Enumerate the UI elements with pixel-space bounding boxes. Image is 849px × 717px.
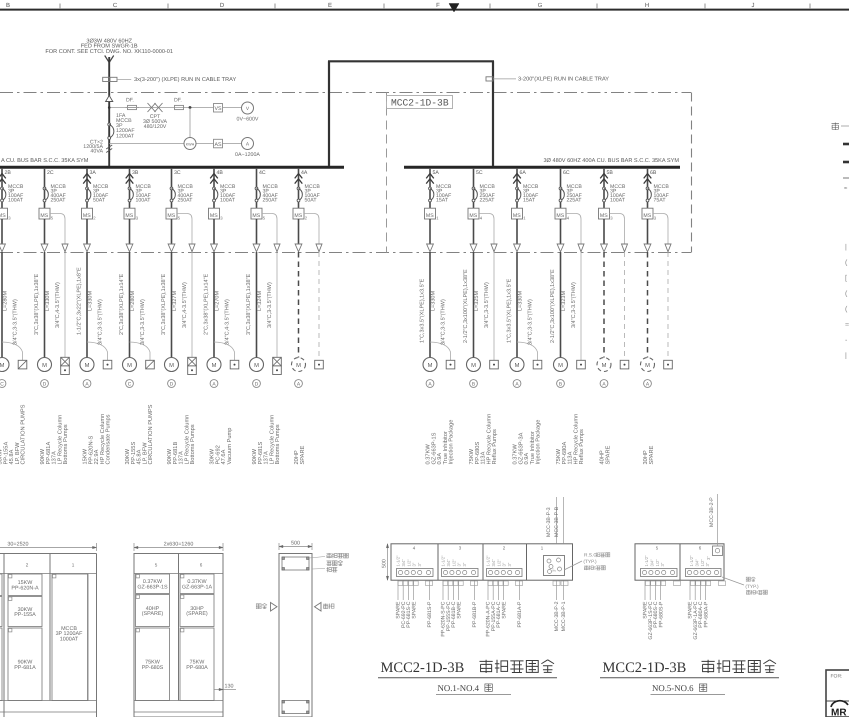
svg-text:M: M [602, 363, 607, 369]
svg-text:1-1/2": 1-1/2" [396, 555, 401, 567]
svg-text:C: C [0, 381, 4, 387]
svg-text:0V~600V: 0V~600V [237, 117, 259, 123]
svg-text:MCC-3B-P-1: MCC-3B-P-1 [561, 601, 567, 631]
svg-text:B: B [472, 381, 475, 387]
svg-text:L=327M: L=327M [172, 291, 178, 311]
svg-text:M: M [558, 363, 563, 369]
svg-text:6: 6 [200, 563, 203, 568]
svg-text:6B: 6B [650, 170, 657, 176]
svg-text:2: 2 [26, 563, 29, 568]
svg-text:PP-680A: PP-680A [186, 665, 208, 671]
svg-text:75AT: 75AT [654, 197, 667, 203]
svg-text:|: | [845, 352, 847, 360]
svg-text:3/4"C,3-3.5"(THW): 3/4"C,3-3.5"(THW) [441, 299, 447, 345]
svg-text:3"C,3x38"(XLPE),1x38"E: 3"C,3x38"(XLPE),1x38"E [246, 273, 252, 335]
svg-text:MCC-3B-P-B: MCC-3B-P-B [554, 506, 560, 537]
svg-text:CIRCULATION PUMPS: CIRCULATION PUMPS [148, 404, 154, 464]
svg-text:M: M [42, 363, 47, 369]
svg-text:1/2": 1/2" [700, 559, 705, 567]
svg-text:5: 5 [51, 215, 54, 220]
svg-text:2"C,3x38"(XLPE),1x14"E: 2"C,3x38"(XLPE),1x14"E [119, 273, 125, 335]
svg-text:2: 2 [305, 215, 308, 220]
svg-text:130: 130 [225, 684, 234, 690]
svg-text:50AT: 50AT [305, 197, 318, 203]
svg-text:M: M [428, 363, 433, 369]
svg-text:L=280M: L=280M [130, 291, 136, 311]
svg-text:1/2": 1/2" [406, 559, 411, 567]
svg-text:PP-681A-P: PP-681A-P [517, 601, 523, 627]
svg-text:15AT: 15AT [436, 197, 449, 203]
svg-text:SPARE: SPARE [649, 445, 655, 464]
svg-text:2-1/2"C,3x100"(XLPE),1x38"E: 2-1/2"C,3x100"(XLPE),1x38"E [463, 269, 469, 343]
svg-text:M: M [471, 363, 476, 369]
svg-text:3/4"C,3-3.5"(THW): 3/4"C,3-3.5"(THW) [13, 299, 19, 345]
svg-text:B: B [559, 381, 562, 387]
svg-text:3/4"C,3-3.5"(THW): 3/4"C,3-3.5"(THW) [571, 282, 577, 328]
svg-text:3A: 3A [90, 170, 97, 176]
svg-text:MCC2-1D-3B: MCC2-1D-3B [391, 97, 449, 108]
svg-text:100AT: 100AT [136, 197, 152, 203]
svg-text:MS: MS [0, 213, 6, 219]
svg-text:1-1/2": 1-1/2" [441, 555, 446, 567]
svg-text:3": 3" [552, 568, 557, 572]
svg-text:4: 4 [567, 215, 570, 220]
svg-text:M: M [645, 363, 650, 369]
svg-text:SPARE: SPARE [605, 445, 611, 464]
svg-text:3/4": 3/4" [446, 559, 451, 567]
svg-text:(SPARE): (SPARE) [142, 611, 164, 617]
svg-text:3B: 3B [132, 170, 139, 176]
svg-text:M: M [85, 363, 90, 369]
svg-text:1"C,3x3.5"(XLPE),1x3.5"E: 1"C,3x3.5"(XLPE),1x3.5"E [420, 278, 426, 343]
svg-text:CIRCULATION PUMPS: CIRCULATION PUMPS [21, 404, 27, 464]
svg-text:MS: MS [252, 213, 260, 219]
svg-text:MCC-3B-P-3: MCC-3B-P-3 [546, 507, 552, 537]
svg-text:5: 5 [656, 546, 659, 551]
svg-text:2"C,3x38"(XLPE),1x14"E: 2"C,3x38"(XLPE),1x14"E [204, 273, 210, 335]
svg-text:250AT: 250AT [51, 197, 67, 203]
svg-text:Injection Package: Injection Package [535, 420, 542, 465]
svg-text:PP-681S-P: PP-681S-P [427, 601, 433, 627]
svg-text:5B: 5B [607, 170, 614, 176]
svg-text:MS: MS [600, 213, 608, 219]
svg-text:480/120V: 480/120V [144, 124, 167, 130]
svg-text:E: E [328, 2, 332, 9]
svg-text:6: 6 [594, 566, 597, 571]
svg-text:L=325M: L=325M [474, 291, 480, 311]
svg-text:3/4"C,3-3.5"(THW): 3/4"C,3-3.5"(THW) [140, 299, 146, 345]
svg-text:SPARE: SPARE [501, 601, 507, 619]
svg-text:(: ( [845, 305, 848, 313]
svg-text:3: 3 [220, 215, 223, 220]
svg-text:3/4": 3/4" [401, 559, 406, 567]
svg-text:=: = [845, 322, 849, 329]
svg-text:5A: 5A [433, 170, 440, 176]
svg-text:0A~1200A: 0A~1200A [235, 152, 260, 158]
svg-text:MS: MS [643, 213, 651, 219]
svg-text:FOR CONT. SEE CTCI. DWG. NO. X: FOR CONT. SEE CTCI. DWG. NO. XK110-0000-… [45, 49, 173, 55]
svg-text:Injection Package: Injection Package [448, 420, 455, 465]
svg-text:MS: MS [294, 213, 302, 219]
svg-text:1000AT: 1000AT [60, 636, 79, 642]
svg-text:3": 3" [706, 556, 711, 560]
svg-text:L=330M: L=330M [430, 291, 436, 311]
svg-text:3Ø 480V 60HZ 400A CU. BUS BAR: 3Ø 480V 60HZ 400A CU. BUS BAR S.C.C. 35K… [543, 158, 679, 164]
svg-text:MS: MS [210, 213, 218, 219]
svg-text:(TYP.): (TYP.) [583, 559, 597, 565]
svg-text:VS: VS [214, 106, 222, 112]
svg-text:1: 1 [436, 215, 439, 220]
svg-text:3": 3" [660, 562, 665, 566]
svg-text:15AT: 15AT [523, 197, 536, 203]
svg-text:L=330M: L=330M [45, 291, 51, 311]
svg-text:3/4"C,3-3.5"(THW): 3/4"C,3-3.5"(THW) [267, 282, 273, 328]
svg-text:225AT: 225AT [480, 197, 496, 203]
svg-text:Reflux Pumps: Reflux Pumps [491, 429, 498, 465]
svg-text:4: 4 [480, 215, 483, 220]
svg-text:MS: MS [556, 213, 564, 219]
svg-text:D: D [220, 2, 225, 9]
svg-text:H: H [645, 2, 649, 9]
svg-text:4A: 4A [301, 170, 308, 176]
svg-text:3: 3 [8, 215, 11, 220]
svg-text:1"C,3x3.5"(XLPE),1x3.5"E: 1"C,3x3.5"(XLPE),1x3.5"E [507, 278, 513, 343]
svg-text:1/2": 1/2" [496, 559, 501, 567]
svg-text:500: 500 [291, 541, 300, 547]
svg-text:M: M [296, 363, 301, 369]
svg-text:V: V [246, 106, 250, 112]
svg-text:5: 5 [178, 215, 181, 220]
svg-text:3": 3" [417, 562, 422, 566]
svg-text:3": 3" [412, 562, 417, 566]
svg-text:D: D [170, 381, 174, 387]
svg-text:1200AT: 1200AT [116, 134, 135, 140]
svg-text:4C: 4C [259, 170, 266, 176]
svg-text:1/2": 1/2" [655, 559, 660, 567]
svg-text:1-1/2": 1-1/2" [486, 555, 491, 567]
svg-text:PP-680A-P: PP-680A-P [703, 601, 709, 627]
svg-text:5: 5 [263, 215, 266, 220]
svg-text:SPARE: SPARE [456, 601, 462, 619]
svg-text:1-1/2"C,3x22"(XLPE),1x8"E: 1-1/2"C,3x22"(XLPE),1x8"E [77, 267, 83, 335]
svg-text:1/2": 1/2" [451, 559, 456, 567]
svg-text:3/4"C,3-3.5"(THW): 3/4"C,3-3.5"(THW) [528, 299, 534, 345]
svg-text:L=280M: L=280M [2, 291, 8, 311]
svg-text:Bottoms Pumps: Bottoms Pumps [190, 424, 196, 464]
svg-text:PP-681A: PP-681A [14, 665, 36, 671]
svg-text:3/4"C,4-3.5"(THW): 3/4"C,4-3.5"(THW) [182, 282, 188, 328]
svg-text:L=330M: L=330M [87, 291, 93, 311]
svg-text:3/4"C,4-3.5"(THW): 3/4"C,4-3.5"(THW) [55, 282, 61, 328]
svg-text:225AT: 225AT [567, 197, 583, 203]
svg-text:3/4": 3/4" [491, 559, 496, 567]
svg-text:MS: MS [125, 213, 133, 219]
svg-text:100AT: 100AT [610, 197, 626, 203]
svg-text:Bottoms Pumps: Bottoms Pumps [63, 424, 69, 464]
svg-text:2: 2 [503, 546, 506, 551]
svg-text:L=330M: L=330M [517, 291, 523, 311]
svg-text:5C: 5C [476, 170, 483, 176]
svg-text:|: | [845, 243, 847, 251]
svg-text:8: 8 [756, 590, 759, 595]
svg-text:MR: MR [831, 708, 847, 717]
svg-text:3": 3" [507, 562, 512, 566]
svg-text:L=323M: L=323M [561, 291, 567, 311]
svg-text:250AT: 250AT [178, 197, 194, 203]
svg-text:3/4": 3/4" [694, 559, 699, 567]
svg-text:PP-620N-A: PP-620N-A [11, 585, 39, 591]
svg-text:MS: MS [469, 213, 477, 219]
svg-text:3-200"(XLPE) RUN IN CABLE TRAY: 3-200"(XLPE) RUN IN CABLE TRAY [518, 76, 609, 83]
svg-text:2B: 2B [5, 170, 12, 176]
svg-text:Condensate Pumps: Condensate Pumps [105, 414, 112, 464]
svg-text:-: - [845, 337, 848, 344]
svg-text:1: 1 [72, 563, 75, 568]
svg-text:MCC-3B-P-2: MCC-3B-P-2 [554, 601, 560, 631]
svg-text:B: B [6, 2, 10, 9]
svg-text:1: 1 [523, 215, 526, 220]
svg-text:5: 5 [155, 563, 158, 568]
svg-text:1: 1 [541, 546, 544, 551]
svg-text:100AT: 100AT [220, 197, 236, 203]
svg-text:3/4"C,4-3.5"(THW): 3/4"C,4-3.5"(THW) [225, 299, 231, 345]
svg-text:M: M [254, 363, 259, 369]
svg-text:100AT: 100AT [8, 197, 24, 203]
svg-text:PP-680S: PP-680S [142, 665, 164, 671]
svg-text:(SPARE): (SPARE) [186, 611, 208, 617]
svg-text:G: G [538, 2, 543, 9]
svg-text:3": 3" [502, 562, 507, 566]
svg-text:3": 3" [457, 562, 462, 566]
svg-text:250AT: 250AT [263, 197, 279, 203]
svg-text:3C: 3C [174, 170, 181, 176]
svg-text:MCC2-1D-3B: MCC2-1D-3B [381, 660, 465, 676]
svg-text:A CU. BUS BAR S.C.C. 35KA SYM: A CU. BUS BAR S.C.C. 35KA SYM [1, 158, 89, 164]
svg-text:(: ( [845, 290, 848, 298]
svg-text:2x630=1260: 2x630=1260 [164, 542, 194, 548]
svg-text:GZ-663P-1S: GZ-663P-1S [137, 584, 168, 590]
svg-text:2: 2 [93, 215, 96, 220]
svg-text:3: 3 [136, 215, 139, 220]
svg-text:SPARE: SPARE [300, 445, 306, 464]
svg-text:SPARE: SPARE [411, 601, 417, 619]
svg-text:D: D [43, 381, 47, 387]
svg-text:KWH: KWH [186, 142, 195, 146]
svg-text:3: 3 [610, 215, 613, 220]
svg-text:PP-155A: PP-155A [14, 612, 36, 618]
svg-text:L=324M: L=324M [257, 291, 263, 311]
svg-text:4: 4 [413, 546, 416, 551]
svg-text:M: M [127, 363, 132, 369]
svg-text:DF.: DF. [174, 98, 182, 104]
svg-text:PP-681B-P: PP-681B-P [472, 601, 478, 627]
svg-text:MS: MS [40, 213, 48, 219]
svg-text:GZ-663P-1A: GZ-663P-1A [182, 584, 213, 590]
svg-text:1-1/2": 1-1/2" [689, 555, 694, 567]
svg-text:AS: AS [214, 142, 222, 148]
svg-text:M: M [169, 363, 174, 369]
svg-text:2C: 2C [47, 170, 54, 176]
svg-text:J: J [752, 2, 755, 9]
svg-text:3/4"C,3-3.5"(THW): 3/4"C,3-3.5"(THW) [484, 282, 490, 328]
svg-text:3": 3" [705, 562, 710, 566]
svg-text:C: C [113, 2, 118, 9]
svg-text:3"C,3x38"(XLPE),1x38"E: 3"C,3x38"(XLPE),1x38"E [34, 273, 40, 335]
svg-text:FOR:: FOR: [831, 674, 843, 680]
svg-text:3: 3 [654, 215, 657, 220]
svg-text:MCC-3B-2-P: MCC-3B-2-P [709, 497, 715, 527]
svg-text:PP-680S-P: PP-680S-P [658, 601, 664, 627]
svg-text:L=270M: L=270M [214, 291, 220, 311]
svg-text:6C: 6C [563, 170, 570, 176]
svg-text:3/4": 3/4" [649, 559, 654, 567]
svg-text:2-1/2"C,3x100"(XLPE),1x38"E: 2-1/2"C,3x100"(XLPE),1x38"E [550, 269, 556, 343]
svg-text:NO.1-NO.4: NO.1-NO.4 [438, 683, 480, 693]
svg-text:6A: 6A [520, 170, 527, 176]
svg-text:3: 3 [459, 546, 462, 551]
svg-text:MS: MS [426, 213, 434, 219]
svg-text:Vacuum Pump: Vacuum Pump [227, 428, 233, 465]
svg-text:3/4"C,3-3.5"(THW): 3/4"C,3-3.5"(THW) [98, 299, 104, 345]
svg-text:A: A [246, 142, 250, 148]
svg-text:C: C [128, 381, 132, 387]
svg-text:40VA: 40VA [90, 149, 103, 155]
svg-text:MS: MS [513, 213, 521, 219]
svg-text:M: M [0, 363, 5, 369]
svg-text:MCC2-1D-3B: MCC2-1D-3B [603, 660, 687, 676]
svg-text:50AT: 50AT [93, 197, 106, 203]
svg-text:6: 6 [699, 546, 702, 551]
svg-text:3": 3" [462, 562, 467, 566]
svg-text:3"C,3x38"(XLPE),1x38"E: 3"C,3x38"(XLPE),1x38"E [161, 273, 167, 335]
svg-text:[: [ [845, 274, 847, 282]
svg-text:1-1/2": 1-1/2" [644, 555, 649, 567]
svg-text:M: M [212, 363, 217, 369]
svg-text:4B: 4B [217, 170, 224, 176]
svg-text:MS: MS [83, 213, 91, 219]
svg-text:500: 500 [382, 559, 388, 568]
svg-text:DF.: DF. [126, 98, 134, 104]
svg-text:NO.5-NO.6: NO.5-NO.6 [652, 683, 694, 693]
svg-text:MS: MS [167, 213, 175, 219]
svg-text:D: D [255, 381, 259, 387]
svg-text:≈: ≈ [844, 186, 848, 192]
svg-text:Bottoms Pumps: Bottoms Pumps [275, 424, 281, 464]
svg-text:Reflux Pumps: Reflux Pumps [578, 429, 585, 465]
svg-text:F: F [436, 2, 440, 9]
svg-text:M: M [515, 363, 520, 369]
svg-text:3x(3-200") (XLPE) RUN IN CABLE: 3x(3-200") (XLPE) RUN IN CABLE TRAY [134, 76, 236, 83]
svg-text:30=2520: 30=2520 [7, 542, 28, 548]
svg-text:(: ( [845, 259, 848, 267]
